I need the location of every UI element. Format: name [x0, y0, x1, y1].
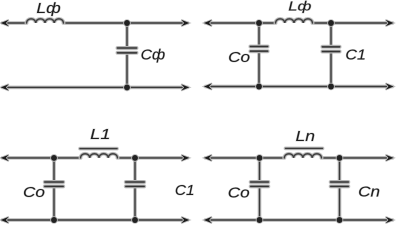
inductor L1 core bar (filter 3) — [80, 147, 117, 151]
capacitor Co (filter 4) — [251, 158, 269, 220]
node: filter2 top-left junction — [255, 19, 263, 27]
svg-text:Lф: Lф — [36, 1, 60, 17]
arrowhead: filter1 top-left — [1, 20, 9, 26]
node: filter4 bottom-left junction — [256, 216, 264, 224]
arrowhead: filter1 bottom-left — [1, 84, 9, 90]
arrowhead: filter2 bottom-right — [386, 83, 394, 89]
capacitor Cn (filter 4) — [331, 158, 349, 220]
wire: filter2 bottom rail — [206, 85, 393, 89]
node: filter3 top-left junction — [50, 154, 58, 162]
wire: filter4 bottom rail — [206, 218, 393, 222]
capacitor Co (filter 2) — [250, 23, 267, 87]
node: filter1 top junction — [123, 19, 131, 27]
node: filter4 top-left junction — [256, 154, 264, 162]
capacitor Cf (filter 1) — [118, 23, 137, 87]
node: filter3 bottom-left junction — [50, 216, 58, 224]
capacitor Co (filter 3) — [45, 158, 63, 220]
svg-text:Co: Co — [228, 50, 250, 66]
svg-text:Cn: Cn — [358, 184, 380, 200]
arrowhead: filter4 top-right — [386, 155, 394, 161]
capacitor C1 (filter 2) — [322, 23, 339, 87]
svg-text:C1: C1 — [345, 47, 366, 63]
arrowhead: filter1 bottom-right — [181, 84, 189, 90]
arrowhead: filter4 bottom-left — [204, 217, 212, 223]
node: filter3 bottom-right junction — [131, 216, 139, 224]
arrowhead: filter4 top-left — [204, 155, 212, 161]
wire: filter1 bottom rail — [3, 86, 188, 90]
node: filter2 top-right junction — [327, 19, 335, 27]
wire: filter4 top rail — [206, 156, 393, 160]
arrowhead: filter3 bottom-right — [181, 217, 189, 223]
wire: filter3 top rail — [3, 156, 188, 160]
node: filter4 top-right junction — [336, 154, 344, 162]
inductor L1 (filter 3) — [81, 154, 118, 158]
svg-text:Ln: Ln — [296, 128, 316, 145]
arrowhead: filter2 top-left — [204, 20, 212, 26]
svg-text:Co: Co — [23, 184, 45, 201]
node: filter1 bottom junction — [123, 84, 131, 92]
node: filter2 bottom-left junction — [255, 83, 263, 91]
inductor Lf (filter 2) — [276, 19, 313, 23]
wire: filter2 top rail — [206, 21, 393, 25]
arrowhead: filter3 bottom-left — [1, 217, 9, 223]
inductor Ln core bar (filter 4) — [286, 146, 323, 150]
arrowhead: filter4 bottom-right — [386, 217, 394, 223]
svg-text:Co: Co — [228, 184, 250, 201]
node: filter2 bottom-right junction — [327, 83, 335, 91]
node: filter4 bottom-right junction — [336, 216, 344, 224]
inductor Lf (filter 1) — [27, 19, 64, 23]
arrowhead: filter3 top-left — [1, 155, 9, 161]
inductor Ln (filter 4) — [284, 154, 321, 158]
svg-text:Lф: Lф — [288, 0, 312, 14]
wire: filter3 bottom rail — [3, 218, 188, 222]
svg-text:L1: L1 — [90, 126, 110, 143]
arrowhead: filter3 top-right — [181, 155, 189, 161]
node: filter3 top-right junction — [131, 154, 139, 162]
arrowhead: filter2 top-right — [386, 20, 394, 26]
capacitor C1 (filter 3) — [126, 158, 144, 220]
svg-text:Cф: Cф — [141, 48, 166, 64]
svg-text:C1: C1 — [175, 183, 195, 199]
arrowhead: filter2 bottom-left — [204, 83, 212, 89]
arrowhead: filter1 top-right — [181, 20, 189, 26]
wire: filter1 top rail — [3, 21, 188, 25]
